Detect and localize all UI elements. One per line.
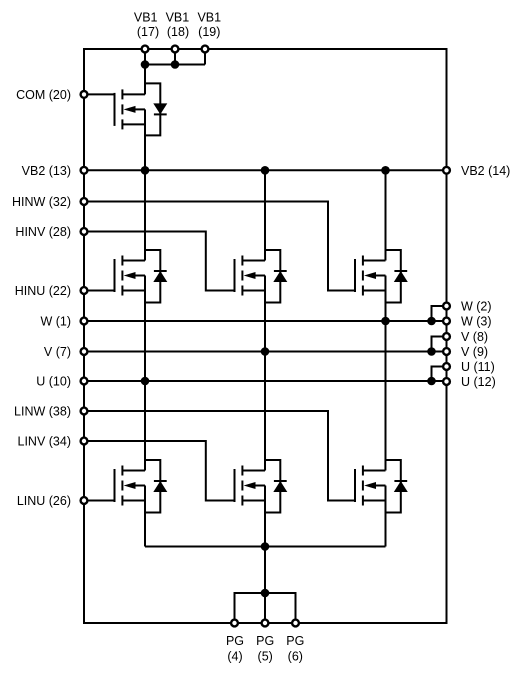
svg-text:W (3): W (3) — [461, 315, 492, 329]
wire VB2 rail — [84, 169, 447, 171]
pin VB1 (18) — [172, 46, 179, 53]
body diode V low — [265, 460, 287, 513]
pin VB1 (19) — [202, 46, 209, 53]
svg-text:VB2 (14): VB2 (14) — [461, 164, 510, 178]
pin HINU (22) — [81, 287, 88, 294]
junction U12 jumper — [427, 377, 436, 386]
svg-text:U (12): U (12) — [461, 375, 496, 389]
junction W node — [381, 317, 390, 326]
low-side MOSFET W — [355, 466, 386, 506]
svg-text:PG: PG — [256, 634, 274, 648]
svg-text:(18): (18) — [167, 25, 189, 39]
svg-text:(4): (4) — [227, 650, 242, 664]
pin LINV (34) — [81, 438, 88, 445]
high-side MOSFET W — [355, 256, 386, 296]
svg-text:(17): (17) — [137, 25, 159, 39]
wire LINV to gate — [84, 441, 235, 501]
pin V (7) — [81, 348, 88, 355]
low-side MOSFET U — [115, 466, 146, 506]
pin U (12) — [443, 378, 450, 385]
wire HINW to gate — [84, 202, 355, 291]
wire W2 jumper — [432, 306, 447, 321]
pin W (1) — [81, 318, 88, 325]
body diode W high — [386, 250, 408, 303]
svg-text:(6): (6) — [288, 650, 303, 664]
pin V (8) — [443, 333, 450, 340]
package outline — [84, 49, 447, 623]
junction source rail — [261, 542, 270, 551]
wire V high-side source to V node — [264, 276, 266, 352]
wire HINV to gate — [84, 232, 235, 291]
svg-text:VB1: VB1 — [197, 10, 221, 24]
pin PG (4) — [231, 620, 238, 627]
wire W low-side drain — [385, 321, 387, 471]
svg-text:LINW (38): LINW (38) — [14, 405, 71, 419]
wire bootstrap source to VB2 rail — [144, 109, 146, 170]
pin PG (6) — [292, 620, 299, 627]
wire V low-side source — [264, 486, 266, 547]
wire U low-side source — [144, 486, 146, 547]
svg-text:LINV (34): LINV (34) — [18, 435, 72, 449]
pin COM (20) — [81, 91, 88, 98]
svg-text:(5): (5) — [258, 650, 273, 664]
wire U low-side drain — [144, 381, 146, 471]
svg-text:(19): (19) — [198, 25, 220, 39]
wire PG bracket — [235, 593, 296, 623]
svg-text:U (10): U (10) — [36, 375, 71, 389]
bootstrap diode — [145, 83, 167, 135]
junction VB1-18 — [171, 60, 180, 69]
svg-text:COM (20): COM (20) — [16, 88, 71, 102]
wire V8 jumper — [432, 337, 447, 352]
junction V9 jumper — [427, 347, 436, 356]
pin W (2) — [443, 303, 450, 310]
pin V (9) — [443, 348, 450, 355]
pin W (3) — [443, 318, 450, 325]
svg-text:VB2 (13): VB2 (13) — [22, 164, 71, 178]
svg-text:V (8): V (8) — [461, 330, 488, 344]
svg-text:W (1): W (1) — [40, 315, 71, 329]
pin LINW (38) — [81, 408, 88, 415]
wire W high-side drain — [385, 170, 387, 260]
junction VB1-17 — [141, 60, 150, 69]
wire U11 jumper — [432, 367, 447, 382]
junction V node — [261, 347, 270, 356]
pin HINW (32) — [81, 198, 88, 205]
pin VB1 (17) — [142, 46, 149, 53]
high-side MOSFET U — [115, 256, 146, 296]
wire V low-side drain — [264, 352, 266, 471]
junction VB2 / W drain — [381, 166, 390, 175]
svg-text:HINU (22): HINU (22) — [15, 284, 71, 298]
junction VB2 / U drain — [141, 166, 150, 175]
svg-text:PG: PG — [286, 634, 304, 648]
pin U (10) — [81, 378, 88, 385]
wire PG center stem — [264, 593, 266, 623]
wire bootstrap drain — [144, 65, 146, 95]
junction PG bracket — [261, 589, 270, 598]
svg-text:V (9): V (9) — [461, 345, 488, 359]
wire W low-side source — [385, 486, 387, 547]
svg-text:VB1: VB1 — [134, 10, 158, 24]
low-side MOSFET V — [235, 466, 266, 506]
pin VB2 (14) — [443, 167, 450, 174]
wire LINU to gate — [84, 500, 115, 502]
svg-text:U (11): U (11) — [461, 360, 495, 374]
wire HINU to gate — [84, 290, 115, 292]
svg-text:W (2): W (2) — [461, 300, 492, 314]
wire VB1 bus tie — [145, 49, 205, 65]
body diode W low — [386, 460, 408, 513]
wire common source rail — [145, 546, 386, 548]
wire U high-side source to U node — [144, 276, 146, 382]
pin U (11) — [443, 363, 450, 370]
pin VB2 (13) — [81, 167, 88, 174]
pin LINU (26) — [81, 497, 88, 504]
pin HINV (28) — [81, 228, 88, 235]
wire V high-side drain — [264, 170, 266, 260]
body diode U low — [145, 460, 167, 513]
wire U phase row — [84, 380, 447, 382]
wire source rail to PG bracket — [264, 547, 266, 594]
svg-text:VB1: VB1 — [166, 10, 190, 24]
svg-text:PG: PG — [226, 634, 244, 648]
wire W high-side source to W node — [385, 276, 387, 322]
body diode U high — [145, 250, 167, 303]
high-side MOSFET V — [235, 256, 266, 296]
wire U high-side drain — [144, 170, 146, 260]
junction W3 jumper — [427, 317, 436, 326]
junction VB2 / V drain — [261, 166, 270, 175]
svg-text:LINU (26): LINU (26) — [17, 494, 71, 508]
svg-text:HINV (28): HINV (28) — [15, 225, 71, 239]
bootstrap MOSFET — [115, 89, 146, 129]
wire LINW to gate — [84, 411, 355, 501]
junction U node — [141, 377, 150, 386]
svg-text:HINW (32): HINW (32) — [12, 195, 71, 209]
wire V phase row — [84, 351, 447, 353]
svg-text:V (7): V (7) — [44, 345, 71, 359]
body diode V high — [265, 250, 287, 303]
wire W phase row — [84, 320, 447, 322]
pin PG (5) — [262, 620, 269, 627]
wire COM to bootstrap gate — [84, 93, 115, 95]
